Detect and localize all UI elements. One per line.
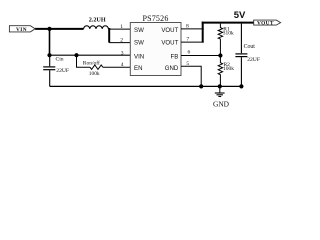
svg-text:22UF: 22UF [56,68,69,74]
node dot R2/GND on rail [218,84,222,88]
svg-text:SW: SW [134,27,144,34]
svg-text:GND: GND [213,99,230,108]
wire pin 8 VOUT [181,28,204,30]
svg-text:VIN: VIN [134,54,144,61]
resistor Ron/off 100k [90,65,103,69]
wire Ron/off branch vertical [77,55,91,67]
wire to pin 3 VIN of IC [50,54,131,56]
svg-text:2: 2 [120,37,123,43]
wire to pin 2 SW [109,42,130,44]
wire bottom rail [50,85,242,87]
wire SW bus vertical pins 1-2 [108,28,110,43]
svg-text:8: 8 [186,24,189,30]
svg-text:4: 4 [121,62,124,68]
op-amp U1 PS7526 IC body [130,14,181,76]
node dot Cout to rail [239,84,243,88]
svg-text:100k: 100k [89,71,100,77]
svg-text:VOUT: VOUT [161,27,178,34]
svg-text:100k: 100k [223,66,234,72]
wire vertical VIN branch down [49,29,51,55]
svg-text:EN: EN [134,65,142,72]
svg-text:VOUT: VOUT [161,40,178,47]
node A junction dot at VIN branch [47,27,51,31]
svg-text:PS7526: PS7526 [142,14,168,23]
node C junction dot at Ron/off branch [74,53,78,57]
wire VIN to inductor [35,28,84,30]
svg-text:FB: FB [171,54,179,61]
resistor R2 100k [218,56,234,87]
svg-text:GND: GND [165,65,179,72]
svg-text:5V: 5V [234,10,246,21]
svg-text:2.2UH: 2.2UH [89,16,106,23]
VOUT flag [254,20,281,27]
svg-text:Cout: Cout [244,44,256,50]
wire to pin 1 SW [109,28,130,30]
capacitor Cin 22UF [43,55,69,86]
svg-text:SW: SW [134,40,144,47]
wire inductor to SW bus [108,28,110,30]
svg-text:7: 7 [186,37,189,43]
svg-text:5: 5 [186,61,189,67]
svg-text:3: 3 [121,50,124,56]
wire pin 5 GND [181,66,201,86]
node FB junction dot [218,53,222,57]
wire pin 6 FB [181,55,220,57]
wire pin 7 VOUT [181,41,204,43]
inductor L 2.2UH [84,16,109,29]
VIN flag [9,26,35,33]
resistor R1 310k [218,24,234,56]
wire Ron/off to pin 4 EN [103,66,131,68]
svg-text:22UF: 22UF [247,57,260,63]
wire 5V rail [202,22,254,24]
svg-text:VIN: VIN [16,27,27,33]
ground [213,86,230,108]
svg-text:Cin: Cin [56,57,64,63]
svg-text:1: 1 [120,24,123,30]
node B junction dot at Cin top [47,53,51,57]
svg-text:VOUT: VOUT [257,21,274,27]
svg-text:6: 6 [188,49,191,55]
capacitor Cout 22UF [235,24,260,87]
svg-text:Ron/off: Ron/off [83,59,100,66]
node dot pin5 to rail [199,84,203,88]
wire VOUT bus vertical [202,22,204,43]
svg-text:310k: 310k [223,31,234,37]
